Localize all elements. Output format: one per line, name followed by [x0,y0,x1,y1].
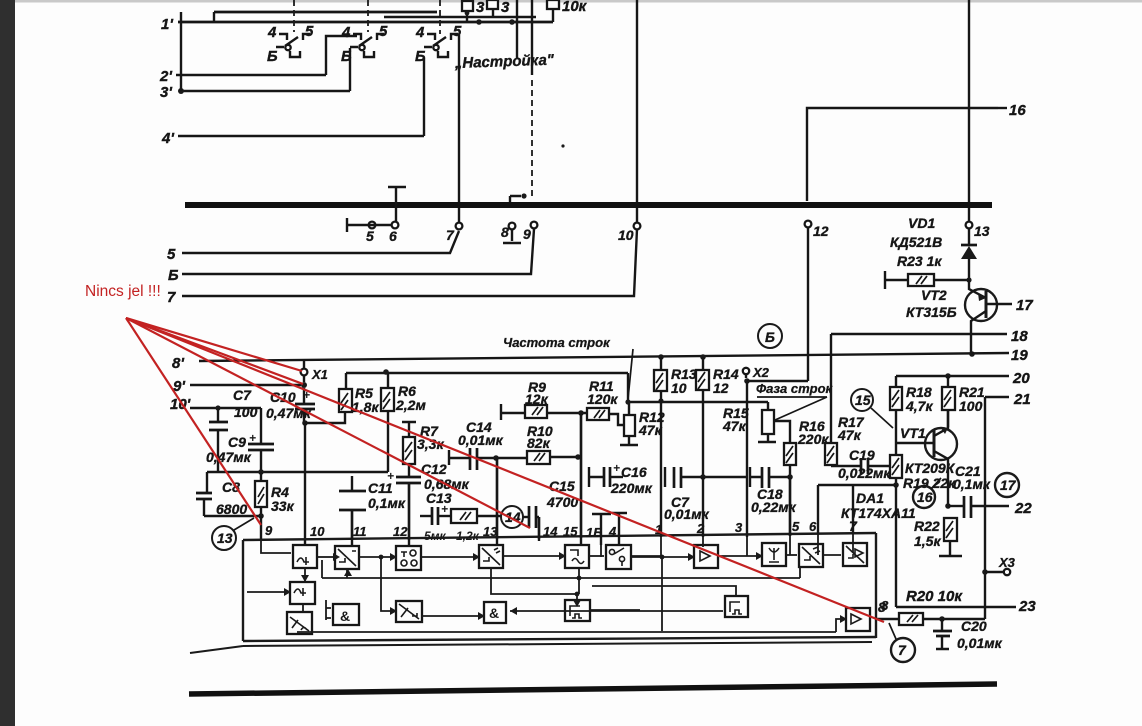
svg-text:КТ315Б: КТ315Б [906,304,957,320]
svg-text:7: 7 [849,518,858,534]
svg-text:7: 7 [446,227,455,243]
svg-text:9: 9 [265,523,273,538]
svg-text:X1: X1 [311,367,328,382]
svg-text:Фаза строк: Фаза строк [756,381,834,396]
svg-text:10: 10 [671,380,687,396]
svg-text:4: 4 [415,24,425,41]
svg-text:18: 18 [1011,328,1028,345]
svg-text:C11: C11 [368,480,393,496]
svg-text:13: 13 [483,524,498,539]
svg-text:7: 7 [898,642,907,658]
svg-text:33к: 33к [271,498,295,514]
svg-text:10: 10 [310,524,325,539]
svg-text:6: 6 [809,519,817,534]
svg-text:17: 17 [1016,297,1033,314]
svg-text:5: 5 [305,23,314,40]
svg-text:5: 5 [792,519,800,534]
svg-text:4: 4 [267,24,277,41]
svg-text:1,8к: 1,8к [352,399,379,415]
svg-text:0,01мк: 0,01мк [458,432,504,448]
svg-text:82к: 82к [527,435,551,451]
svg-text:5мк: 5мк [424,529,447,543]
svg-text:8: 8 [501,224,509,240]
svg-text:6: 6 [389,228,397,244]
svg-text:12: 12 [713,380,729,396]
svg-text:47к: 47к [837,427,862,443]
svg-text:6800: 6800 [216,501,247,517]
svg-text:100: 100 [234,404,258,420]
svg-text:R23 1к: R23 1к [897,253,942,269]
svg-text:X2: X2 [752,365,770,380]
svg-text:220мк: 220мк [610,480,653,496]
svg-text:„Настройка": „Настройка" [454,52,556,73]
svg-text:VT1: VT1 [900,425,926,441]
svg-text:12: 12 [393,524,408,539]
svg-text:47к: 47к [638,422,663,438]
svg-text:17: 17 [1000,477,1017,493]
svg-text:3': 3' [160,84,172,101]
svg-text:2': 2' [159,68,172,85]
svg-text:C19: C19 [849,447,875,463]
svg-text:+: + [441,502,448,516]
svg-text:100: 100 [959,398,983,414]
svg-text:+: + [613,461,620,475]
svg-text:C10: C10 [270,389,296,405]
svg-text:47к: 47к [722,418,747,434]
svg-text:R20 10к: R20 10к [906,588,963,605]
svg-text:2: 2 [696,521,705,536]
svg-text:VD1: VD1 [908,215,935,231]
svg-text:C9: C9 [228,434,246,450]
svg-text:12: 12 [813,223,829,239]
svg-text:3: 3 [476,0,485,16]
svg-text:Б: Б [765,329,775,345]
svg-text:0,022мк: 0,022мк [838,465,891,481]
svg-text:5: 5 [366,228,374,244]
svg-text:2,2м: 2,2м [395,397,426,413]
svg-text:&: & [489,605,499,621]
svg-text:120к: 120к [587,391,618,407]
svg-text:Б: Б [267,48,278,65]
svg-text:C7: C7 [233,387,252,403]
svg-text:23: 23 [1018,598,1036,615]
svg-text:12к: 12к [525,391,549,407]
svg-text:14: 14 [543,524,558,539]
svg-text:3: 3 [735,520,743,535]
svg-text:21: 21 [1013,391,1031,408]
svg-text:11: 11 [353,524,367,539]
svg-text:C16: C16 [621,464,647,480]
svg-text:1,2к: 1,2к [456,529,480,543]
svg-text:5: 5 [453,23,462,40]
svg-text:20: 20 [1012,370,1030,387]
svg-text:КД521В: КД521В [890,234,942,250]
svg-text:19: 19 [1011,347,1028,364]
svg-text:1Б: 1Б [586,525,602,540]
svg-text:0,1мк: 0,1мк [368,495,406,511]
svg-text:1': 1' [161,16,173,33]
svg-text:C15: C15 [549,478,575,494]
svg-text:Nincs jel !!!: Nincs jel !!! [85,283,161,300]
svg-text:VT2: VT2 [921,287,947,303]
svg-text:15: 15 [855,392,871,408]
svg-text:7: 7 [167,289,176,306]
svg-text:0,01мк: 0,01мк [957,635,1003,651]
svg-text:5: 5 [167,246,176,263]
svg-text:4: 4 [341,24,351,41]
svg-text:8': 8' [172,355,184,372]
svg-text:4,7к: 4,7к [905,398,933,414]
svg-text:4': 4' [161,130,174,147]
svg-text:3: 3 [501,0,510,16]
svg-text:9: 9 [523,226,531,242]
svg-text:8: 8 [881,598,889,613]
svg-text:10: 10 [618,227,634,243]
svg-text:C20: C20 [961,618,987,634]
svg-text:X3: X3 [998,555,1016,570]
svg-text:15: 15 [563,524,578,539]
svg-text:5: 5 [379,23,388,40]
svg-text:22: 22 [1014,500,1032,517]
svg-text:4: 4 [608,524,617,539]
svg-text:0,1мк: 0,1мк [953,476,991,492]
svg-text:13: 13 [217,530,233,546]
svg-text:&: & [340,608,350,624]
svg-text:DA1: DA1 [856,490,884,506]
svg-text:R22: R22 [914,518,940,534]
svg-text:1,5к: 1,5к [914,533,941,549]
svg-text:16: 16 [917,489,933,505]
svg-text:10к: 10к [562,0,588,15]
svg-text:13: 13 [974,223,990,239]
svg-text:Частота строк: Частота строк [503,335,611,350]
svg-text:16: 16 [1009,102,1026,119]
svg-text:Б: Б [168,267,179,284]
